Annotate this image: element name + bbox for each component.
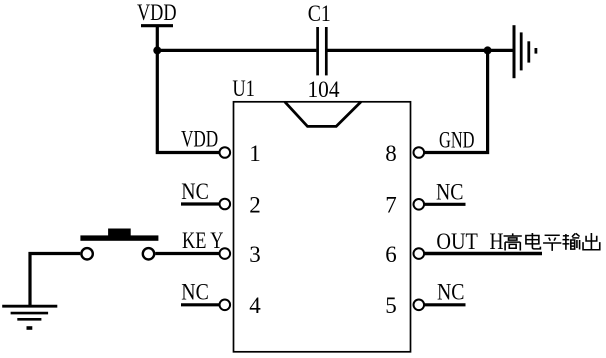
pin 4 circle: [220, 300, 231, 311]
pin 6 wire: [424, 252, 542, 255]
svg-text:8: 8: [385, 141, 397, 166]
svg-text:VDD: VDD: [137, 0, 177, 26]
svg-text:4: 4: [249, 293, 261, 318]
svg-text:7: 7: [385, 193, 397, 218]
pin 2 circle: [220, 199, 231, 210]
capacitor C1: [318, 27, 327, 75]
svg-text:GND: GND: [439, 128, 475, 154]
pin 5 wire: [424, 303, 465, 306]
label char gao: [504, 233, 522, 250]
pin 1 circle: [220, 147, 231, 158]
wire capacitor to ground rail: [328, 49, 488, 52]
wire VDD flag to pin 1: [157, 26, 219, 153]
label char chu: [583, 233, 600, 250]
node junction ground rail: [484, 46, 492, 54]
pin 3 circle: [220, 248, 231, 259]
wire button to pin 3: [155, 252, 219, 255]
pin 2 wire: [181, 202, 220, 205]
svg-text:C1: C1: [308, 1, 331, 27]
svg-text:OUT: OUT: [436, 229, 478, 255]
label char shu: [562, 233, 579, 249]
wire button to ground: [30, 254, 80, 306]
pin 8 circle: [414, 147, 425, 158]
svg-text:KE Y: KE Y: [182, 228, 224, 254]
svg-text:NC: NC: [181, 179, 209, 205]
pin 7 circle: [414, 199, 425, 210]
push button S1: [80, 229, 158, 260]
node junction VDD rail: [153, 46, 161, 54]
svg-text:NC: NC: [437, 280, 465, 306]
svg-text:NC: NC: [181, 279, 209, 305]
pin 8 wire to ground rail: [424, 50, 488, 152]
svg-text:VDD: VDD: [181, 126, 218, 152]
svg-text:3: 3: [249, 242, 261, 267]
wire VDD rail to capacitor: [157, 49, 316, 52]
svg-text:5: 5: [385, 293, 397, 318]
svg-text:U1: U1: [232, 76, 255, 102]
pin 4 wire: [181, 303, 220, 306]
svg-text:104: 104: [308, 77, 340, 103]
label char ping: [543, 235, 561, 251]
label char dian: [526, 233, 540, 249]
ground earth left: [2, 306, 57, 328]
ground chassis right: [488, 25, 536, 78]
pin 7 wire: [424, 203, 465, 206]
pin 5 circle: [414, 300, 425, 311]
svg-text:NC: NC: [436, 180, 464, 206]
svg-text:6: 6: [385, 242, 397, 267]
power flag VDD: [137, 0, 177, 26]
svg-text:1: 1: [249, 141, 261, 166]
svg-text:2: 2: [249, 192, 261, 217]
IC U1 body: [234, 102, 411, 352]
svg-text:H: H: [490, 229, 504, 255]
pin 6 circle: [414, 248, 425, 259]
IC notch: [285, 102, 361, 127]
